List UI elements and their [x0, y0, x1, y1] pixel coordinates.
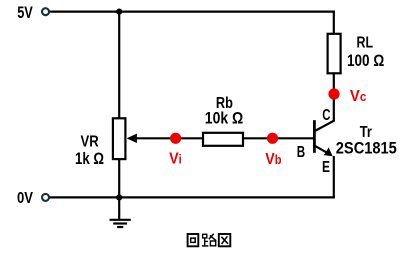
svg-text:2SC1815: 2SC1815	[336, 138, 397, 157]
svg-text:E: E	[322, 159, 330, 176]
wire: emitter down to 0V rail	[333, 156, 335, 197]
resistor Rb body	[203, 133, 243, 146]
svg-text:0V: 0V	[17, 190, 33, 207]
caption 路 (ro)	[202, 234, 216, 246]
node Vb	[267, 133, 278, 144]
svg-text:B: B	[297, 144, 305, 161]
wire: 0V bottom rail	[50, 196, 335, 198]
svg-text:5V: 5V	[17, 3, 33, 22]
caption 図 (zu)	[219, 234, 231, 246]
wire: 5V top rail	[50, 11, 335, 13]
svg-text:Vc: Vc	[350, 88, 366, 105]
svg-text:100 Ω: 100 Ω	[347, 51, 384, 70]
wire: collector up through Vc to RL	[333, 73, 335, 121]
wire: RL top to 5V rail	[333, 11, 335, 34]
VR wiper arrowhead	[127, 134, 137, 143]
caption 回 (kai)	[188, 234, 199, 246]
wire: VR bottom to 0V rail	[118, 159, 120, 198]
ground stem	[118, 197, 120, 219]
5V input terminal	[42, 8, 49, 15]
node Vi	[170, 133, 181, 144]
transistor collector diagonal	[315, 120, 335, 131]
VR wiper arrow wire	[136, 137, 176, 139]
ground bar 2	[113, 222, 127, 224]
wire: base wire from wiper to transistor base	[176, 137, 313, 139]
node Vc	[328, 88, 339, 99]
svg-text:C: C	[322, 107, 331, 124]
svg-text:Vb: Vb	[265, 151, 282, 168]
svg-text:10k Ω: 10k Ω	[205, 108, 243, 127]
ground bar 3	[117, 226, 123, 228]
transistor emitter diagonal	[315, 146, 329, 154]
transistor emitter arrowhead	[324, 147, 333, 156]
svg-text:Vi: Vi	[169, 150, 182, 167]
svg-text:RL: RL	[357, 34, 374, 51]
ground bar 1	[110, 219, 131, 221]
wire: top junction down to VR	[118, 12, 120, 119]
node: top junction	[116, 9, 122, 15]
potentiometer VR body	[113, 118, 126, 159]
transistor Q1 base bar	[313, 120, 316, 153]
node: bottom junction	[116, 194, 122, 200]
resistor RL body	[328, 34, 341, 74]
svg-text:1k Ω: 1k Ω	[75, 149, 104, 168]
0V terminal	[42, 194, 49, 201]
